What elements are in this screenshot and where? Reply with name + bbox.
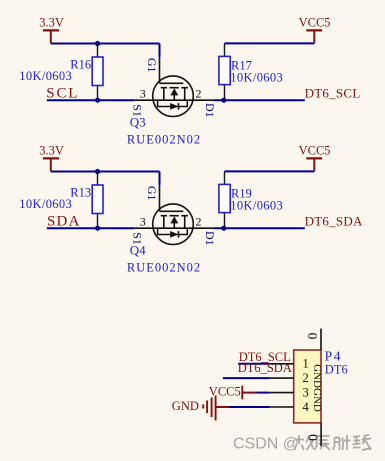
wire gate stub row2	[159, 172, 161, 186]
svg-text:VCC5: VCC5	[209, 384, 241, 398]
svg-text:Q4: Q4	[130, 242, 146, 257]
svg-text:D1: D1	[203, 103, 217, 118]
resistor R13	[19, 172, 103, 229]
svg-text:DT6_SDA: DT6_SDA	[305, 214, 363, 229]
ground GND	[172, 396, 229, 421]
junction row2 SDA	[95, 226, 100, 231]
junction row1 top	[95, 41, 100, 46]
svg-text:10K/0603: 10K/0603	[230, 70, 283, 84]
wire pin1	[238, 363, 270, 365]
wire pin4	[229, 406, 270, 408]
wire drain row2	[214, 227, 305, 229]
resistor R19	[219, 171, 283, 228]
svg-text:1: 1	[302, 356, 308, 370]
svg-text:P4: P4	[325, 349, 342, 364]
svg-text:D1: D1	[203, 231, 217, 246]
svg-text:3: 3	[140, 86, 146, 100]
svg-text:R16: R16	[70, 57, 91, 71]
svg-text:2: 2	[196, 87, 202, 101]
wire 3.3V rail row1	[51, 43, 160, 45]
svg-text:10K/0603: 10K/0603	[230, 198, 283, 212]
svg-text:VCC5: VCC5	[299, 16, 331, 30]
resistor R17	[219, 43, 283, 100]
svg-text:DT6_SCL: DT6_SCL	[305, 86, 361, 101]
svg-text:2: 2	[196, 215, 202, 229]
svg-text:3.3V: 3.3V	[39, 144, 64, 158]
wire pin2	[223, 377, 270, 379]
junction row1 SCL	[95, 98, 100, 103]
wire VCC5 rail row2	[225, 170, 315, 172]
svg-text:VCC5: VCC5	[299, 144, 331, 158]
resistor R16	[19, 44, 103, 101]
junction row2 drain	[221, 226, 226, 231]
svg-text:G1: G1	[145, 58, 159, 73]
svg-text:SDA: SDA	[47, 214, 81, 230]
svg-text:RUE002N02: RUE002N02	[127, 132, 201, 146]
power port 3.3V (row2)	[39, 144, 64, 172]
svg-text:10K/0603: 10K/0603	[19, 197, 72, 211]
svg-text:CSDN @: CSDN @	[233, 436, 299, 453]
svg-text:Q3: Q3	[130, 114, 146, 129]
wire pin3	[256, 392, 269, 394]
wire 3.3V rail row2	[51, 171, 160, 173]
svg-text:RUE002N02: RUE002N02	[127, 260, 201, 274]
svg-text:GNDGND: GNDGND	[311, 364, 323, 412]
power port VCC5 (row2)	[299, 144, 331, 172]
power port 3.3V (row1)	[39, 16, 64, 44]
svg-text:3: 3	[302, 386, 308, 400]
svg-text:3.3V: 3.3V	[39, 16, 64, 30]
wire drain row1	[214, 99, 305, 101]
svg-text:10K/0603: 10K/0603	[19, 69, 72, 83]
connector P4	[270, 329, 348, 446]
svg-text:3: 3	[140, 214, 146, 228]
svg-text:G1: G1	[145, 186, 159, 201]
watermark CSDN	[233, 435, 372, 453]
wire gate stub row1	[159, 44, 161, 58]
svg-text:0: 0	[305, 434, 320, 441]
svg-text:0: 0	[305, 333, 320, 340]
svg-text:R13: R13	[70, 185, 91, 199]
svg-text:GND: GND	[172, 399, 199, 413]
svg-text:DT6: DT6	[325, 363, 348, 377]
junction row2 top	[95, 169, 100, 174]
power port VCC5 (row1)	[299, 16, 331, 44]
wire SDA row2	[47, 227, 135, 229]
transistor Q3 RUE002N02	[134, 57, 213, 116]
transistor Q4 RUE002N02	[134, 185, 213, 245]
svg-text:2: 2	[302, 371, 308, 385]
junction row1 drain	[221, 98, 226, 103]
svg-text:4: 4	[302, 400, 309, 414]
wire SCL row1	[47, 99, 135, 101]
power port VCC5 (connector)	[209, 384, 257, 399]
wire VCC5 rail row1	[225, 42, 315, 44]
